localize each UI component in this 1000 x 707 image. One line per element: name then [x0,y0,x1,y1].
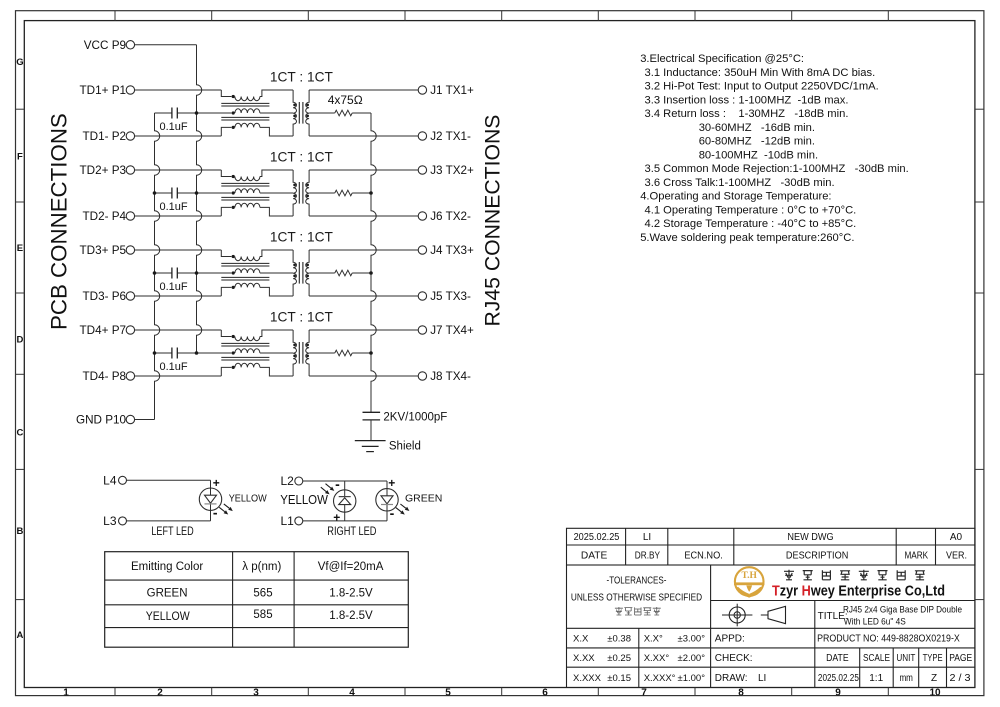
svg-text:ECN.NO.: ECN.NO. [684,551,723,562]
svg-text:LI: LI [643,532,651,543]
svg-text:2KV/1000pF: 2KV/1000pF [383,412,447,424]
svg-text:1:1: 1:1 [869,673,883,684]
svg-text:+: + [213,476,220,490]
svg-text:0.1uF: 0.1uF [160,281,188,293]
svg-text:X.X: X.X [573,634,589,645]
svg-text:±3.00°: ±3.00° [677,634,705,645]
svg-text:+: + [333,510,340,524]
svg-text:TD3+ P5: TD3+ P5 [80,244,127,257]
svg-text:UNLESS OTHERWISE SPECIFIED: UNLESS OTHERWISE SPECIFIED [571,592,702,603]
svg-text:VCC P9: VCC P9 [84,39,126,52]
svg-text:mm: mm [899,673,913,684]
svg-text:L3: L3 [103,514,117,528]
svg-text:TD3- P6: TD3- P6 [82,290,126,303]
svg-text:-TOLERANCES-: -TOLERANCES- [607,575,667,586]
svg-text:X.XX: X.XX [573,653,595,664]
svg-text:±1.00°: ±1.00° [677,673,705,684]
svg-text:-: - [335,476,340,492]
svg-text:4x75Ω: 4x75Ω [328,93,363,107]
svg-text:1CT : 1CT: 1CT : 1CT [270,149,333,165]
svg-text:YELLOW: YELLOW [229,493,267,505]
svg-text:L2: L2 [280,474,294,488]
svg-text:2: 2 [157,687,163,698]
svg-text:TD4+ P7: TD4+ P7 [80,324,126,337]
svg-text:λ p(nm): λ p(nm) [242,561,281,573]
svg-text:J5 TX3-: J5 TX3- [430,290,471,303]
svg-text:PCB CONNECTIONS: PCB CONNECTIONS [46,113,71,330]
svg-text:±2.00°: ±2.00° [677,653,705,664]
svg-text:TD2+ P3: TD2+ P3 [80,164,126,177]
svg-text:UNIT: UNIT [896,653,915,664]
svg-text:MARK: MARK [904,551,928,562]
svg-text:X.X°: X.X° [644,634,663,645]
svg-text:L4: L4 [103,473,117,487]
svg-text:CHECK:: CHECK: [715,653,753,664]
svg-text:TYPE: TYPE [923,653,943,664]
svg-text:1CT : 1CT: 1CT : 1CT [270,309,333,325]
svg-text:With LED 6u" 4S: With LED 6u" 4S [844,617,906,628]
svg-text:1: 1 [63,687,69,698]
svg-text:YELLOW: YELLOW [146,611,190,623]
svg-text:4.Operating and Storage Temper: 4.Operating and Storage Temperature: [640,191,831,203]
svg-text:1CT : 1CT: 1CT : 1CT [270,69,333,85]
svg-text:1CT : 1CT: 1CT : 1CT [270,229,333,245]
svg-text:4.1 Operating Temperature : 0°: 4.1 Operating Temperature : 0°C to +70°C… [645,204,857,216]
svg-text:F: F [17,152,23,163]
svg-text:Vf@If=20mA: Vf@If=20mA [318,561,384,573]
svg-text:YELLOW: YELLOW [280,492,328,507]
svg-text:DATE: DATE [826,653,849,664]
svg-text:GREEN: GREEN [147,588,188,600]
svg-text:NEW DWG: NEW DWG [787,532,833,543]
svg-text:A: A [16,630,23,641]
svg-text:E: E [17,243,23,254]
svg-text:DR.BY: DR.BY [635,551,661,562]
svg-text:D: D [16,335,23,346]
svg-text:0.1uF: 0.1uF [160,201,188,213]
svg-text:3.6 Cross Talk:1-100MHZ -30d: 3.6 Cross Talk:1-100MHZ -30dB min. [645,177,835,189]
svg-text:TD2- P4: TD2- P4 [82,210,126,223]
svg-text:0.1uF: 0.1uF [160,361,188,373]
svg-text:3.5 Common Mode Rejection:1-10: 3.5 Common Mode Rejection:1-100MHZ -30dB… [645,163,909,175]
svg-text:+: + [388,476,395,490]
svg-text:X.XX°: X.XX° [644,653,670,664]
svg-text:Z: Z [931,673,937,684]
svg-text:Emitting Color: Emitting Color [131,561,203,573]
svg-text:J4 TX3+: J4 TX3+ [430,244,474,257]
svg-text:APPD:: APPD: [715,634,745,645]
svg-text:RJ45 CONNECTIONS: RJ45 CONNECTIONS [482,115,505,327]
svg-text:±0.25: ±0.25 [607,653,631,664]
svg-text:GND P10: GND P10 [76,414,127,427]
svg-text:1.8-2.5V: 1.8-2.5V [329,588,373,600]
svg-text:3.3 Insertion loss : 1-100MHZ: 3.3 Insertion loss : 1-100MHZ -1dB max. [645,94,849,106]
svg-text:3.2 Hi-Pot Test: Input to Outp: 3.2 Hi-Pot Test: Input to Output 2250VDC… [645,81,879,93]
svg-text:585: 585 [253,609,272,621]
svg-text:Tzyr Hwey Enterprise Co,Ltd: Tzyr Hwey Enterprise Co,Ltd [772,584,945,600]
svg-text:A0: A0 [950,532,963,543]
svg-text:9: 9 [835,687,841,698]
svg-text:-: - [390,505,395,521]
svg-text:L1: L1 [280,514,294,528]
svg-text:G: G [16,57,23,68]
svg-text:6: 6 [542,687,548,698]
svg-text:J3 TX2+: J3 TX2+ [430,164,474,177]
svg-text:3.Electrical Specification @25: 3.Electrical Specification @25°C: [640,53,804,65]
svg-text:DRAW:: DRAW: [715,673,748,684]
svg-text:PRODUCT NO: 449-8828OX0219-X: PRODUCT NO: 449-8828OX0219-X [817,634,960,645]
svg-text:X.XXX°: X.XXX° [644,673,676,684]
svg-text:J7 TX4+: J7 TX4+ [430,324,474,337]
svg-text:8: 8 [738,687,744,698]
svg-text:B: B [16,526,23,537]
svg-text:LI: LI [758,673,766,684]
svg-text:3: 3 [253,687,259,698]
svg-text:T.H: T.H [741,571,757,581]
svg-text:-: - [213,505,218,521]
svg-text:3.4 Return loss : 1-30MHZ: 3.4 Return loss : 1-30MHZ -18dB min. [645,108,849,120]
svg-text:GREEN: GREEN [405,493,442,505]
svg-text:3.1 Inductance: 350uH Min With: 3.1 Inductance: 350uH Min With 8mA DC bi… [645,67,876,79]
svg-text:2 / 3: 2 / 3 [950,673,971,684]
svg-text:DESCRIPTION: DESCRIPTION [786,551,848,562]
svg-text:80-100MHZ -10dB min.: 80-100MHZ -10dB min. [699,149,818,161]
svg-text:Shield: Shield [389,441,421,453]
svg-text:4: 4 [349,687,355,698]
svg-text:10: 10 [929,687,941,698]
svg-text:J6 TX2-: J6 TX2- [430,210,471,223]
svg-text:5: 5 [445,687,451,698]
svg-text:RIGHT LED: RIGHT LED [327,524,376,538]
svg-text:30-60MHZ -16dB min.: 30-60MHZ -16dB min. [699,122,815,134]
svg-text:LEFT LED: LEFT LED [151,524,194,538]
svg-text:J2 TX1-: J2 TX1- [430,130,471,143]
svg-text:X.XXX: X.XXX [573,673,602,684]
svg-text:SCALE: SCALE [863,653,890,664]
svg-text:1.8-2.5V: 1.8-2.5V [329,610,373,622]
svg-text:C: C [16,428,23,439]
svg-text:±0.15: ±0.15 [607,673,631,684]
svg-text:J1 TX1+: J1 TX1+ [430,84,474,97]
svg-text:565: 565 [253,588,272,600]
svg-text:0.1uF: 0.1uF [160,121,188,133]
svg-text:J8 TX4-: J8 TX4- [430,370,471,383]
svg-text:7: 7 [641,687,647,698]
svg-text:TD4- P8: TD4- P8 [82,370,126,383]
svg-text:2025.02.25: 2025.02.25 [818,673,859,684]
svg-text:PAGE: PAGE [949,653,972,664]
svg-text:60-80MHZ -12dB min.: 60-80MHZ -12dB min. [699,136,815,148]
svg-text:TD1- P2: TD1- P2 [82,130,126,143]
svg-text:TD1+ P1: TD1+ P1 [80,84,126,97]
svg-text:DATE: DATE [581,551,608,562]
svg-text:±0.38: ±0.38 [607,634,631,645]
svg-text:VER.: VER. [946,551,967,562]
svg-text:5.Wave soldering peak temperat: 5.Wave soldering peak temperature:260°C. [640,232,854,244]
svg-text:2025.02.25: 2025.02.25 [574,532,620,543]
svg-text:RJ45 2x4 Giga Base DIP Double: RJ45 2x4 Giga Base DIP Double [843,605,962,616]
svg-text:4.2 Storage Temperature : -40°: 4.2 Storage Temperature : -40°C to +85°C… [645,218,857,230]
